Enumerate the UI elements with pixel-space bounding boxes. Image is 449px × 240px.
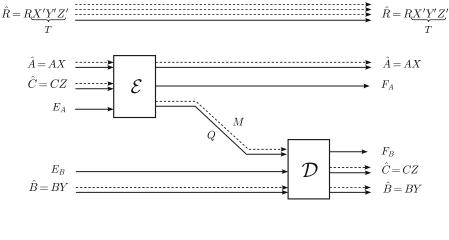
label T under brace top-right: [425, 26, 432, 33]
wire solid A input: [75, 66, 108, 68]
wire dashed C-hat output: [330, 166, 366, 168]
wire dashed top 3: [75, 14, 366, 16]
label F_B output: [382, 147, 394, 156]
wire dashed B-hat output: [330, 187, 366, 189]
label M: [233, 118, 244, 126]
encoder script-E glyph: [131, 79, 141, 93]
label F_A output: [381, 80, 393, 89]
label B-hat = BY output: [383, 182, 421, 193]
wire solid B output: [330, 191, 367, 193]
underbrace under X'Y'Z' top-right: [411, 18, 445, 22]
decoder script-D glyph: [302, 163, 318, 177]
wire dashed A-hat input: [75, 61, 108, 63]
wire solid C output: [330, 172, 367, 174]
label B-hat = BY input: [29, 180, 68, 191]
decoder box D1: [288, 140, 329, 199]
label T under brace top-left: [45, 26, 52, 33]
wire solid Q channel: [156, 106, 282, 154]
wire dashed top 1: [75, 4, 366, 6]
label C-hat = CZ output: [382, 162, 418, 173]
wire solid E_A input: [75, 108, 108, 110]
label Q: [208, 131, 216, 141]
label E_B input: [51, 165, 64, 174]
wire solid C input: [75, 88, 108, 90]
label A-hat = AX output: [383, 57, 421, 68]
encoder box E1: [114, 56, 156, 118]
wire dashed A-hat output: [156, 61, 367, 63]
wire solid B input: [76, 191, 283, 193]
label R-hat equation top-right: [382, 6, 448, 17]
wire dashed M channel: [156, 101, 282, 149]
wire solid top 4: [75, 19, 366, 21]
wire solid E_B input: [76, 171, 283, 173]
label A-hat = AX input: [28, 57, 66, 68]
wire dashed top 2: [75, 9, 366, 11]
label C-hat = CZ input: [28, 76, 67, 88]
underbrace under X'Y'Z' top-left: [31, 18, 65, 22]
wire solid F_A output: [156, 85, 365, 87]
wire solid F_B output: [330, 151, 363, 153]
label E_A input: [52, 103, 65, 112]
wire solid A output: [156, 66, 367, 68]
wire dashed B-hat input: [76, 187, 283, 189]
wire dashed C-hat input: [75, 83, 108, 85]
label R-hat equation top-left: [2, 6, 68, 17]
